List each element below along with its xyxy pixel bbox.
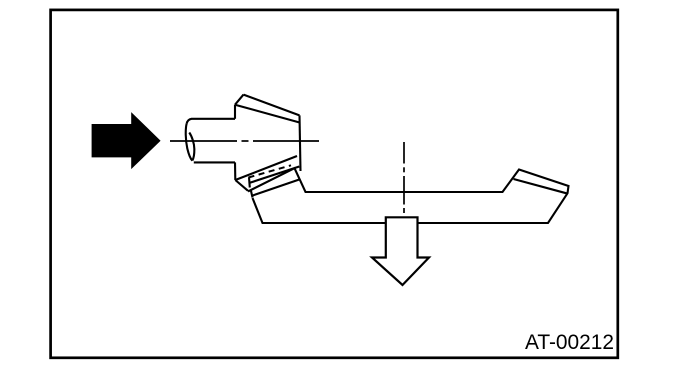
shaft cylinder bottom line bbox=[194, 161, 235, 163]
collar lower edge bbox=[250, 167, 299, 183]
shaft end-face arc bbox=[189, 133, 194, 161]
collar tab vertical bbox=[248, 177, 251, 187]
shaft cylinder top line bbox=[187, 119, 235, 124]
vertical centerline (dash-dot) bbox=[403, 142, 405, 213]
collar upper edge bbox=[235, 156, 297, 180]
cone peak edge bbox=[235, 95, 244, 105]
bracket arm outline bbox=[248, 168, 569, 223]
collar hidden edge (dashed) bbox=[249, 165, 292, 177]
figure border bbox=[51, 10, 618, 358]
bracket right flange inner line bbox=[514, 179, 567, 193]
collar left cap bbox=[235, 180, 248, 191]
shaft left silhouette arc bbox=[186, 124, 193, 161]
cone right edge bbox=[300, 115, 301, 171]
svg-text:AT-00212: AT-00212 bbox=[525, 331, 614, 354]
bracket left flange inner line bbox=[252, 179, 300, 195]
cone left edge bbox=[234, 105, 236, 119]
bracket left flange cap bbox=[251, 190, 253, 198]
direction arrow (solid, pointing right) bbox=[92, 112, 161, 169]
collar left vertical bbox=[234, 162, 236, 180]
horizontal centerline (dash-dot) bbox=[170, 140, 319, 142]
press-down arrow (outlined) bbox=[372, 217, 429, 285]
cone inner top edge bbox=[235, 105, 300, 123]
cone outer top edge bbox=[244, 95, 300, 116]
